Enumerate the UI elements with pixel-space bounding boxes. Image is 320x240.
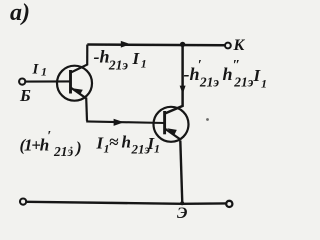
arrow base current into V2 bbox=[114, 119, 124, 126]
transistor V2 base bar bbox=[163, 111, 166, 134]
transistor V2 circle bbox=[154, 107, 189, 142]
svg-text:К: К bbox=[233, 37, 246, 54]
transistor V2 emitter lead bbox=[165, 128, 181, 139]
terminal K (collector output) bbox=[225, 43, 231, 49]
wire V2 emitter down to rail bbox=[180, 141, 182, 204]
transistor V1 base bar bbox=[69, 70, 72, 94]
transistor V2 collector lead bbox=[165, 44, 183, 113]
arrow collector current top bbox=[121, 41, 131, 48]
arrow collector current V2 (down) bbox=[180, 86, 186, 94]
junction node bottom bbox=[180, 201, 184, 205]
wire bottom emitter rail bbox=[27, 202, 226, 204]
junction node top bbox=[180, 42, 185, 47]
svg-text:Э: Э bbox=[177, 205, 187, 222]
svg-text:Б: Б bbox=[19, 86, 31, 105]
transistor V1 collector lead bbox=[71, 45, 88, 73]
wire V1 emitter down bbox=[85, 98, 88, 121]
wire base input to T1 bbox=[26, 80, 71, 82]
wire top collector rail bbox=[87, 43, 225, 46]
transistor V1 circle bbox=[57, 66, 92, 101]
svg-text:а): а) bbox=[10, 0, 30, 26]
paper background bbox=[0, 0, 270, 226]
transistor V2 emitter arrow (PNP) bbox=[167, 128, 177, 135]
scan speck small bbox=[70, 147, 72, 149]
wire V1 emitter to V2 base bbox=[86, 121, 164, 123]
transistor V1 emitter arrow (PNP) bbox=[73, 88, 83, 94]
terminal Б (base input) bbox=[19, 79, 25, 85]
terminal emitter right bbox=[226, 201, 232, 207]
transistor V1 emitter lead bbox=[70, 87, 86, 98]
terminal emitter left bbox=[20, 199, 26, 205]
scan speck bbox=[206, 118, 209, 121]
